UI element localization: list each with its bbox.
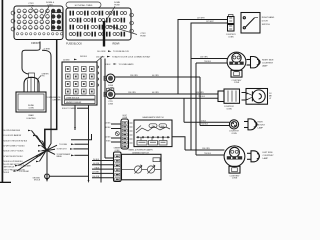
svg-text:TO FUSE BLOCK: TO FUSE BLOCK [113,51,130,53]
connector inline courtesy feed upper [104,74,115,83]
svg-text:TO DOME: TO DOME [59,144,68,146]
wire splice output to dome defeat [48,145,57,149]
svg-text:CONN: CONN [226,108,232,110]
wire stub labels dimmer [92,159,100,178]
svg-text:5 WHT SPLICE: 5 WHT SPLICE [3,167,16,169]
svg-text:HAZARD FLASHER: HAZARD FLASHER [66,101,82,104]
callout diagonal at conv center top right [96,56,103,62]
svg-text:CONN: CONN [28,107,34,109]
svg-text:CONN: CONN [232,178,238,180]
wire row D upper [185,149,224,151]
svg-text:FUSE BLOCK: FUSE BLOCK [66,42,82,45]
wire row C upper [184,121,229,123]
svg-text:305 BLK: 305 BLK [80,56,88,58]
wire main courtesy trunk [45,40,57,150]
svg-text:750 BLK TO RH DOOR SW BLK: 750 BLK TO RH DOOR SW BLK [3,141,28,143]
svg-text:157 WHT RH SW 750 BLK: 157 WHT RH SW 750 BLK [3,156,24,158]
svg-text:REAR: REAR [113,42,120,45]
headlamps switch box [134,120,172,147]
svg-text:150 BLK: 150 BLK [93,159,100,161]
svg-text:40 ORN: 40 ORN [152,92,159,94]
page bottom-left border artifact [0,181,11,183]
wire curve to main ground feed [42,50,51,149]
convenience center edge bumps [97,66,99,86]
svg-text:5 BLK: 5 BLK [201,120,207,122]
svg-text:TO RH CTSY: TO RH CTSY [57,149,68,151]
connector left courtesy lamp (keyhole) [224,146,245,173]
svg-text:156 ORN: 156 ORN [130,75,138,77]
rear lighting harness box [16,92,46,112]
fuse block body [66,8,131,40]
lamp left side courtesy bulb [247,151,260,162]
svg-text:HOT AT ALL TIMES: HOT AT ALL TIMES [75,4,93,7]
wire drop from conv center mid [74,105,76,130]
dimmer switch internal rheostats [122,158,162,174]
wire row A upper [191,58,227,60]
connector C100 used-cavity dark cluster [51,9,62,31]
svg-text:156 ORN: 156 ORN [200,56,208,58]
svg-text:305 BLK: 305 BLK [104,122,111,124]
fuse block fuse rows [69,11,127,37]
svg-text:156 ORN: 156 ORN [92,176,99,178]
convenience center box [62,62,97,105]
hot at all times pill label [66,2,101,8]
svg-text:LAMP: LAMP [28,5,34,8]
svg-text:750 BLK LH LP FEED BLK: 750 BLK LH LP FEED BLK [3,161,24,163]
svg-text:157 WHT: 157 WHT [206,21,214,23]
svg-text:SPLICE: SPLICE [34,180,41,182]
svg-text:150 BLK: 150 BLK [104,136,111,138]
connector strip at headlamps switch [121,119,129,149]
lamp right side courtesy bulb [247,57,261,68]
svg-text:OFF: OFF [152,126,155,128]
svg-text:CTSY: CTSY [47,5,53,7]
wire drop from conv center right [88,105,90,182]
svg-text:PANEL & INTERIOR LAMPS: PANEL & INTERIOR LAMPS [128,149,153,152]
wire from upper inline connector [115,76,200,78]
svg-text:40 ORN: 40 ORN [152,75,159,77]
svg-text:750 BLK: 750 BLK [198,96,206,98]
wire row D lower [196,154,224,156]
wire row A lower [196,62,228,64]
svg-text:156 ORN: 156 ORN [202,148,210,150]
svg-text:156 ORN DOME FEED: 156 ORN DOME FEED [3,130,21,132]
svg-text:LIGHTING: LIGHTING [27,118,36,120]
svg-text:HDLP: HDLP [123,115,127,117]
lamp rear dome bulb [244,119,257,130]
svg-text:140 ORN: 140 ORN [97,51,106,53]
wire corner into dimmer connector [105,157,114,159]
ground G405 symbol [45,174,50,179]
svg-text:SWITCH: SWITCH [262,24,270,26]
svg-text:REAR: REAR [28,114,34,117]
svg-text:COURTESY: COURTESY [262,63,274,65]
svg-text:157 WHT DOME LP 750 BLK: 157 WHT DOME LP 750 BLK [3,145,26,147]
wire drop from front connector to rear lighting [22,42,40,75]
wire stubs to dome lamp [242,92,247,94]
tick dashes strip to switch box [130,123,133,143]
wire stubs into dimmer connector [92,161,114,178]
wire row B lower [112,97,218,99]
connector right courtesy lamp (keyhole) [227,52,246,77]
convenience center inner grid [66,67,95,95]
svg-text:157 WHT: 157 WHT [92,172,99,174]
wire row C lower [200,125,229,127]
svg-text:TO LH DOOR JAMB SW: TO LH DOOR JAMB SW [3,134,22,137]
wire stubs into headlamps switch connector [111,124,121,142]
svg-text:LAMP: LAMP [263,157,269,160]
svg-text:FUSE: FUSE [114,5,120,7]
connector inline courtesy feed lower [104,88,115,99]
wire riser D inline conn to row C lower [199,77,201,126]
svg-text:CONN: CONN [228,36,234,38]
svg-text:MOUNT: MOUNT [258,124,266,126]
svg-text:CONN: CONN [122,117,128,119]
ground G405 drop [46,152,48,173]
svg-text:HIGH: HIGH [258,121,264,123]
wire riser E row B lower to row C upper [183,98,185,122]
svg-text:FRONT: FRONT [31,42,40,45]
wire riser C row A lower to row D lower [195,63,197,155]
svg-text:PANEL: PANEL [57,155,62,158]
wire ground tie to dome drop [50,175,89,177]
svg-text:FUSE: FUSE [140,36,146,38]
connector C100 pin grid [17,9,61,29]
svg-text:156 ORN: 156 ORN [128,92,136,94]
svg-text:LEFT SIDE: LEFT SIDE [263,152,274,154]
svg-text:8 BLK: 8 BLK [106,64,112,66]
convenience center legend rows [65,96,96,100]
svg-text:COURTESY: COURTESY [263,155,275,157]
wire splice output to instrument panel [48,151,55,154]
svg-text:CONVENIENCE: CONVENIENCE [46,97,61,99]
wire vertical feed 105 [104,59,106,159]
svg-text:157 WHT: 157 WHT [197,18,205,20]
dimmer switch box [122,154,162,180]
svg-text:RIGHT HAND: RIGHT HAND [262,16,275,19]
svg-text:TO AUTO DOOR LOCK CONNECTOR A/: TO AUTO DOOR LOCK CONNECTOR A/T [112,55,151,58]
svg-text:LAMP: LAMP [262,65,268,68]
svg-text:DOOR: DOOR [262,21,269,23]
connector C100 bulkhead front connector body [14,6,63,40]
svg-text:CONN: CONN [108,103,114,105]
svg-text:750 BLK: 750 BLK [204,61,212,63]
svg-text:CONN: CONN [115,150,121,152]
switch RH door jamb switch box [241,13,260,34]
svg-text:CONN: CONN [234,82,240,84]
screw symbol at headlamp connector [115,132,119,136]
svg-text:750 BLK: 750 BLK [201,124,209,126]
svg-text:CONN: CONN [231,133,237,135]
svg-text:750 BLK: 750 BLK [204,153,212,155]
wire row B upper long feed [115,93,218,95]
svg-text:156 ORN: 156 ORN [196,92,204,94]
headlamps switch internal circuit [136,124,170,145]
connector C100 edge bumps [11,11,15,31]
wire vertical feed 101 [100,59,102,183]
svg-text:CHIME MODULE: CHIME MODULE [66,97,80,99]
fuse block edge bumps [130,13,134,33]
svg-text:8 BLK TO RADIO: 8 BLK TO RADIO [62,107,77,110]
connector rear dome lamp [229,120,238,129]
connector rear lighting grommet [24,73,39,92]
svg-text:DIMMER: DIMMER [114,148,121,150]
wire stub labels headlamps switch [104,122,111,142]
svg-text:TO B PILLAR: TO B PILLAR [19,170,30,173]
svg-text:50 BRN: 50 BRN [63,59,70,61]
connector strip at dimmer switch [114,152,122,182]
svg-text:LAMP: LAMP [258,126,264,129]
splice junction dot [45,149,48,152]
svg-text:HEADLAMPS SWITCH: HEADLAMPS SWITCH [143,116,164,119]
wire stub from switch box to LH courtesy riser [172,137,185,150]
wire riser B door sw lower to LH courtesy [191,23,228,150]
svg-text:TO DOME LAMPS: TO DOME LAMPS [119,63,135,66]
wire corner above outputs [71,134,92,140]
svg-text:44 ORN: 44 ORN [93,163,100,165]
page left border artifact [1,0,3,183]
connector dome lamp socket [218,89,240,103]
svg-text:750 BLK: 750 BLK [3,172,10,174]
svg-text:750 BLK CTSY LP 751 BLK: 750 BLK CTSY LP 751 BLK [3,151,25,153]
svg-text:RIGHT SIDE: RIGHT SIDE [262,60,274,62]
wire riser A door sw upper to dome feed [178,20,228,95]
connector C100 bottom small pin row [16,33,62,35]
wire ctsy fuse feed thick drop [103,21,105,47]
wire splice output to rh courtesy [49,149,56,150]
lamp dome lamp housing [246,89,268,105]
connector at RH door switch [228,15,235,32]
